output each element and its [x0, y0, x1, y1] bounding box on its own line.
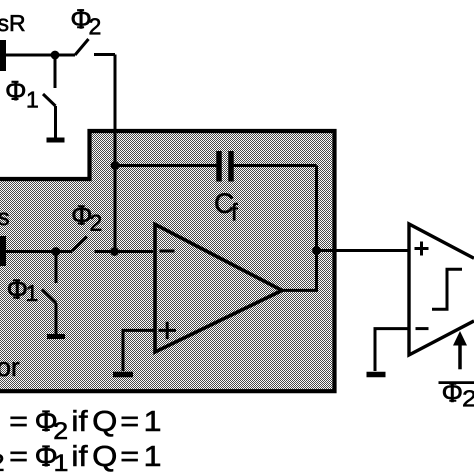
integrator shaded region (stippled box) [0, 131, 335, 392]
wire op-amp + input to ground corner [123, 330, 155, 371]
label Cf [215, 193, 237, 220]
comparator U2 - input marker [416, 327, 429, 330]
wire switch S2 to ground [54, 106, 57, 138]
node D summing node (junction dot) [110, 247, 119, 256]
node B (junction on feedback, dot) [111, 161, 120, 170]
arrow clock input to comparator [453, 331, 467, 369]
ground (middle) [47, 334, 65, 339]
ground (comparator - input) [367, 372, 386, 378]
equation line 1: = phi2 if Q = 1 [11, 410, 160, 439]
ground (op-amp + input) [113, 372, 133, 378]
label phi2-bar text [443, 383, 474, 407]
wire comparator - input to ground [375, 329, 409, 371]
wire: vertical net from top phi2 contact down to summing node [114, 55, 117, 252]
capacitor CsR right plate (cut at left edge) [0, 40, 6, 71]
capacitor Cs right plate (cut at left edge) [0, 236, 6, 266]
comparator U2 (triangle, cut at right edge) [409, 224, 474, 355]
label sR (part of CsR) [0, 15, 25, 31]
wire switch S4 to ground [55, 303, 58, 334]
wire Cf right plate to feedback corner [233, 164, 317, 167]
label phi1 (top switch) [7, 81, 38, 108]
wire op-amp output to feedback corner [282, 166, 317, 291]
switch S1 phi2 arm (top) [75, 39, 89, 55]
wire from Cs to node C [5, 250, 72, 253]
ground (top) [47, 138, 65, 143]
wire node B to Cf left plate [115, 164, 217, 167]
switch S3 phi2 arm (middle) [72, 237, 87, 252]
node C (junction dot) [52, 247, 61, 256]
switch S1 phi2 right contact wire [94, 53, 115, 56]
op-amp U1 inverting input marker - [160, 250, 175, 253]
wire from CsR to node A [5, 54, 75, 57]
switch S4 phi1 arm (middle) [42, 290, 56, 304]
op-amp U1 (integrator) [155, 224, 282, 352]
op-amp U1 non-inverting input marker + [159, 322, 177, 339]
switch S2 phi1 arm (top) [43, 94, 56, 106]
equation line 2: = phi1 if Q = 1 (left glyph cut) [0, 445, 160, 471]
wire output node to comparator + input [317, 249, 410, 252]
wire node C down to switch S4 [55, 252, 58, 284]
switch S3 right contact wire to summing node [95, 250, 154, 253]
wire node A down to switch S2 [54, 55, 57, 88]
label s (part of Cs) [0, 213, 9, 226]
label phi2-bar overline [439, 381, 474, 384]
label phi2 (top switch) [72, 9, 100, 34]
label or (cut word at left edge) [0, 362, 19, 376]
label phi1 (middle switch) [8, 279, 37, 301]
node A (junction dot) [51, 51, 60, 60]
comparator U2 hysteresis symbol [432, 269, 462, 309]
label phi2 (middle switch) [73, 205, 102, 230]
node E output node (junction dot) [312, 246, 321, 255]
comparator U2 + input marker [415, 242, 429, 256]
capacitor Cf [219, 151, 231, 182]
